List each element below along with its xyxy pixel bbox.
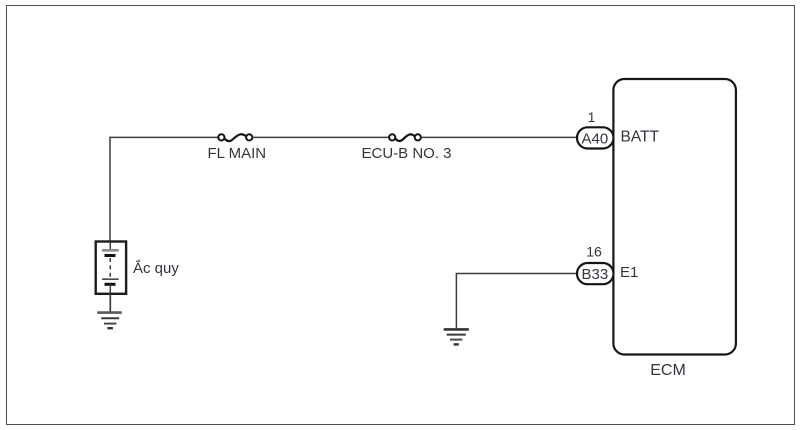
ECM block bbox=[613, 79, 736, 355]
svg-text:BATT: BATT bbox=[621, 129, 660, 146]
connector pin A40 bbox=[577, 127, 614, 148]
label ECM bbox=[650, 362, 686, 379]
wire bbox=[421, 136, 578, 138]
pin number 16 bbox=[586, 244, 602, 260]
svg-text:B33: B33 bbox=[582, 266, 609, 283]
svg-text:ECM: ECM bbox=[650, 362, 686, 379]
svg-text:ECU-B NO. 3: ECU-B NO. 3 bbox=[362, 145, 452, 162]
pin label BATT bbox=[621, 129, 660, 146]
svg-text:16: 16 bbox=[586, 244, 602, 260]
connector pin B33 bbox=[577, 263, 614, 284]
value label ECU-B NO. 3 bbox=[362, 145, 452, 162]
svg-text:E1: E1 bbox=[620, 264, 638, 281]
wire bbox=[109, 294, 111, 313]
value label Ac quy bbox=[133, 259, 179, 277]
fuse ECU-B NO. 3 bbox=[389, 134, 421, 141]
value label FL MAIN bbox=[208, 145, 267, 162]
ground bbox=[444, 329, 469, 344]
pin label E1 bbox=[620, 264, 638, 281]
wire bbox=[456, 274, 577, 330]
svg-text:FL MAIN: FL MAIN bbox=[208, 145, 267, 162]
battery Ac quy bbox=[96, 242, 126, 294]
pin number 1 bbox=[588, 109, 596, 125]
fuse FL MAIN bbox=[218, 134, 252, 141]
svg-text:A40: A40 bbox=[582, 130, 609, 147]
wire bbox=[252, 136, 389, 138]
svg-text:Ắc quy: Ắc quy bbox=[133, 259, 179, 277]
ground bbox=[97, 313, 122, 329]
svg-text:1: 1 bbox=[588, 109, 596, 125]
wire bbox=[110, 137, 219, 241]
